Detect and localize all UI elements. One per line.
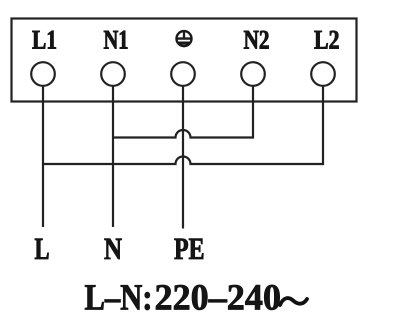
terminal L1 <box>31 62 55 86</box>
terminal N1 <box>101 62 125 86</box>
wire N1-N2 with hop over PE <box>113 130 253 138</box>
label L1 <box>32 31 56 49</box>
wire PE down <box>182 86 184 229</box>
wire N2 stub <box>252 86 254 139</box>
label L2 <box>314 31 338 49</box>
label N <box>104 239 121 259</box>
terminal block outline <box>12 19 357 102</box>
terminal N2 <box>241 62 265 86</box>
tilde <box>280 298 307 305</box>
wire N1 down <box>112 86 114 227</box>
rating text 220-240 <box>156 285 280 310</box>
label PE <box>174 239 203 259</box>
rating text L-N: <box>85 285 150 310</box>
terminal PE <box>171 62 195 86</box>
wire L1 down <box>42 86 44 227</box>
wire L2 stub <box>322 86 324 165</box>
terminal L2 <box>311 62 335 86</box>
wire L1-L2 with hop over PE <box>43 157 323 164</box>
label N2 <box>244 31 269 49</box>
label N1 <box>104 31 128 49</box>
label L <box>35 239 49 259</box>
